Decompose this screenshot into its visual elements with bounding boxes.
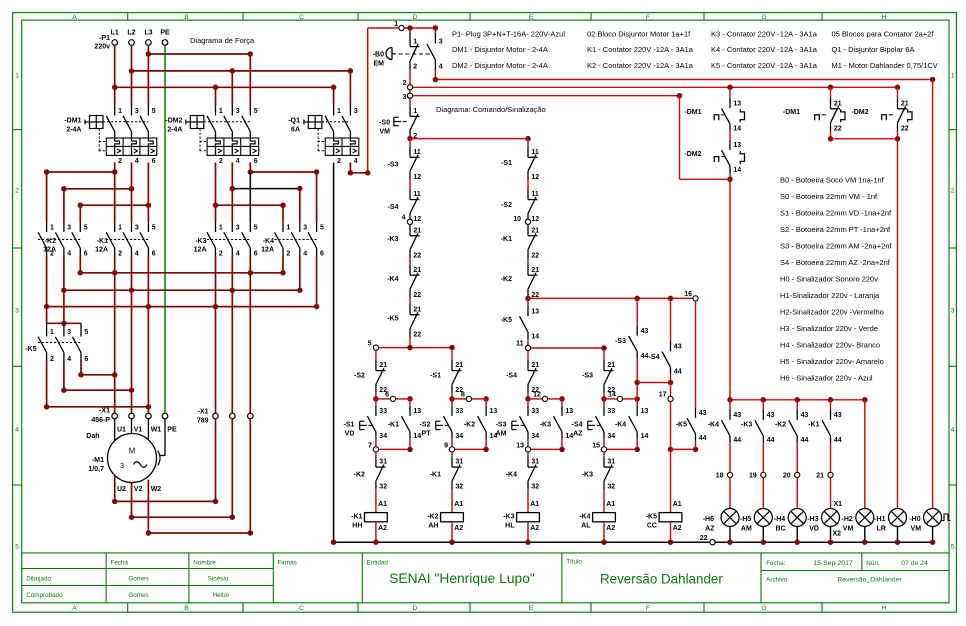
wire to node 14 [603,393,605,399]
contact -K3 NO 43-44 [762,400,764,410]
wire neutral rail [334,541,710,543]
wire DM2-14 to net3 [729,173,731,179]
svg-text:PE: PE [160,30,170,37]
svg-text:B0 - Botoeira Soco VM 1na-1nf: B0 - Botoeira Soco VM 1na-1nf [780,176,885,185]
node 2 [407,85,412,90]
contact S3 NO 43-44 [636,298,638,325]
wire W2 return [147,480,149,533]
node 11 [527,339,529,345]
svg-text:Nombre: Nombre [193,559,216,566]
svg-text:33: 33 [607,408,615,415]
svg-text:4: 4 [439,63,443,70]
svg-text:2-4A: 2-4A [66,127,81,134]
svg-text:Entidad: Entidad [367,559,389,566]
svg-text:EM: EM [374,61,385,68]
svg-text:W2: W2 [151,486,162,493]
svg-text:A2: A2 [673,525,682,532]
lamp H0 VM [924,509,942,527]
svg-text:33: 33 [379,408,387,415]
svg-text:-X1: -X1 [198,409,209,416]
svg-text:14: 14 [641,433,649,440]
svg-text:6: 6 [385,392,389,399]
svg-text:1: 1 [15,72,19,79]
svg-text:AM: AM [741,525,752,532]
svg-text:4: 4 [236,250,240,257]
svg-text:-DM1: -DM1 [783,109,800,116]
svg-text:12: 12 [413,216,421,223]
svg-text:2: 2 [219,250,223,257]
svg-text:220v: 220v [94,44,110,51]
wire L2 tap to DM2 pole3 and Q1 pole3 [132,70,351,72]
svg-text:Fecha:: Fecha: [766,560,786,567]
wire branch feed -K4 [603,351,605,360]
svg-text:12A: 12A [194,247,207,254]
svg-text:21: 21 [834,100,842,107]
svg-text:2: 2 [337,158,341,165]
svg-text:A1: A1 [673,501,682,508]
wire [527,224,529,226]
wire control feed riser [367,28,369,173]
node 10 [525,219,530,224]
wire ladder1 to node5 row [409,337,411,348]
svg-text:11: 11 [531,191,539,198]
svg-text:32: 32 [531,484,539,491]
svg-text:-H3: -H3 [807,516,818,523]
svg-text:-S1: -S1 [501,160,512,167]
svg-text:VD: VD [809,525,819,532]
wire K5-44 to coil junction [695,441,697,450]
motor lead W1 [147,419,149,440]
node 8 [449,396,455,402]
svg-text:DM1 - Disjuntor Motor - 2-4A: DM1 - Disjuntor Motor - 2-4A [452,45,548,54]
svg-text:V2: V2 [134,486,143,493]
svg-text:12: 12 [531,216,539,223]
svg-text:17: 17 [659,392,667,399]
svg-text:DM2 - Disjuntor Motor - 2-4A: DM2 - Disjuntor Motor - 2-4A [452,61,548,70]
svg-text:6: 6 [254,158,258,165]
svg-text:3: 3 [303,224,307,231]
lamp H3 VD [822,509,840,527]
wire DM2 out 6 crossover [249,163,251,173]
svg-text:-S1: -S1 [343,422,354,429]
wire phase bus V [63,256,65,291]
coil -K3 [527,489,529,512]
svg-text:6: 6 [152,158,156,165]
svg-text:-K2: -K2 [464,422,475,429]
svg-text:21: 21 [413,227,421,234]
svg-text:3: 3 [403,94,407,101]
svg-text:5: 5 [84,329,88,336]
svg-text:1: 1 [118,108,122,115]
svg-text:13: 13 [641,408,649,415]
wire node1 to B0 [409,28,411,34]
wire [527,180,529,189]
wire Q1 out 2 neutral black [333,163,335,543]
svg-text:2: 2 [951,188,955,195]
svg-text:Dah: Dah [86,433,99,440]
svg-text:5: 5 [320,224,324,231]
wire [409,298,411,305]
svg-text:-K3: -K3 [540,422,551,429]
wire branch feed -K3 [527,351,529,360]
svg-text:L2: L2 [127,30,135,37]
svg-text:13: 13 [733,142,741,149]
wire node17 down [670,402,672,450]
wire net3 east [413,95,680,97]
svg-text:18: 18 [716,472,724,479]
wire to node 6 [375,393,377,399]
wire [409,180,411,189]
wire K5 out 6 to U line [80,360,82,375]
svg-text:31: 31 [531,459,539,466]
svg-text:F: F [646,14,650,21]
svg-text:B: B [184,605,189,612]
svg-text:44: 44 [733,437,741,444]
title block grid [22,553,949,603]
svg-text:14: 14 [733,125,741,132]
svg-text:1: 1 [394,21,398,28]
node 18 [729,443,731,472]
wire L1 drop to DM1 [114,45,116,105]
svg-text:E: E [529,605,534,612]
node 15 [603,439,605,450]
svg-text:-K5: -K5 [501,317,512,324]
svg-text:-H2: -H2 [842,516,853,523]
svg-text:K1 - Contator 220V -12A - 3A1a: K1 - Contator 220V -12A - 3A1a [587,45,694,54]
wire S0 to rail 138.6 [409,138,411,140]
svg-text:43: 43 [733,412,741,419]
wire node3 to S0 [409,99,411,106]
svg-text:-DM2: -DM2 [851,109,868,116]
svg-text:X2: X2 [832,531,841,538]
svg-text:12A: 12A [261,247,274,254]
svg-text:-P1: -P1 [99,35,110,42]
svg-text:-S0: -S0 [379,120,390,127]
node 5 [373,345,378,350]
lamp H4 BC [788,509,806,527]
wire K2 feeders [46,172,48,222]
wire lamp rail 399.8 [730,399,865,401]
svg-text:-H0: -H0 [909,516,920,523]
svg-text:Firmas: Firmas [278,559,297,566]
svg-text:VM: VM [911,525,922,532]
contact DM2 NC 21-22 [897,87,899,98]
coil -K4 [603,489,605,512]
svg-text:-K1: -K1 [808,422,819,429]
svg-text:21: 21 [816,472,824,479]
svg-text:-DM2: -DM2 [684,151,701,158]
svg-text:22: 22 [413,331,421,338]
svg-text:11: 11 [516,341,524,348]
svg-text:A1: A1 [454,501,463,508]
svg-text:-S2: -S2 [501,202,512,209]
svg-text:H6 - Sinalizador 220v - Azul: H6 - Sinalizador 220v - Azul [780,374,873,383]
svg-text:43: 43 [767,412,775,419]
svg-text:-B0: -B0 [373,52,384,59]
svg-text:1: 1 [118,224,122,231]
svg-text:Título: Título [566,558,582,565]
node 21 [830,443,832,472]
svg-text:-K5: -K5 [25,346,36,353]
coil -K2 [451,489,453,512]
svg-text:21: 21 [531,267,539,274]
svg-text:Gomes: Gomes [128,592,148,599]
wire K3 feeders [215,205,217,222]
svg-text:1: 1 [286,224,290,231]
svg-text:Comprobado: Comprobado [26,592,63,599]
svg-text:3: 3 [120,461,124,470]
svg-text:31: 31 [607,459,615,466]
svg-text:-S3: -S3 [615,338,626,345]
svg-text:1: 1 [219,224,223,231]
svg-text:Fecha: Fecha [111,559,129,566]
svg-text:31: 31 [379,459,387,466]
svg-text:3: 3 [236,108,240,115]
wire DM1 out 2 crossover [114,163,116,173]
svg-text:1: 1 [413,108,417,115]
contact K5 NO 43-44 [695,301,697,408]
svg-text:Nún:: Nún: [866,560,880,567]
svg-text:A2: A2 [454,525,463,532]
svg-text:-Q1: -Q1 [288,118,300,125]
svg-text:12: 12 [413,174,421,181]
wire H2 direct feed [864,400,866,509]
svg-text:44: 44 [801,437,809,444]
svg-text:-K5: -K5 [676,422,687,429]
svg-text:-S4: -S4 [649,354,660,361]
svg-text:B: B [184,14,189,21]
node 3 [409,90,411,93]
wire PE green vertical [164,45,166,413]
svg-text:AH: AH [428,522,438,529]
svg-text:S0 - Botoeira 22mm VM - 1nf: S0 - Botoeira 22mm VM - 1nf [780,192,878,201]
svg-text:-H5: -H5 [740,516,751,523]
svg-text:2: 2 [118,158,122,165]
svg-text:K3 - Contator 220V -12A - 3A1a: K3 - Contator 220V -12A - 3A1a [711,29,818,38]
svg-text:4: 4 [303,250,307,257]
wire rail 298.4 [528,297,693,299]
svg-text:1: 1 [413,39,417,46]
svg-text:34: 34 [455,433,463,440]
svg-text:CC: CC [647,522,657,529]
svg-text:AZ: AZ [573,431,583,438]
svg-text:-K3: -K3 [387,236,398,243]
svg-text:VM: VM [380,129,391,136]
svg-text:V1: V1 [134,426,143,433]
svg-text:VM: VM [843,525,854,532]
wire DM2 out 2 crossover [215,163,217,206]
wire net2 to DM1 aux [413,86,898,88]
svg-text:P1- Plug 3P+N+T-16A- 220V-Azul: P1- Plug 3P+N+T-16A- 220V-Azul [452,29,565,38]
wire to lamp H0 [932,80,934,509]
svg-text:-S3: -S3 [496,422,507,429]
wire DM2 feeders [215,87,217,105]
wire L3 tap to DM2 pole5 [148,53,250,55]
svg-text:44: 44 [699,435,707,442]
svg-text:4: 4 [67,250,71,257]
svg-text:LR: LR [877,525,886,532]
wire to lamp H1 [897,139,899,509]
svg-text:5: 5 [368,340,372,347]
svg-text:4: 4 [135,250,139,257]
svg-text:-S3: -S3 [388,162,399,169]
svg-text:44: 44 [674,369,682,376]
svg-text:-X1: -X1 [99,408,110,415]
svg-text:-S2: -S2 [420,422,431,429]
contact DM1 NC 21-22 [830,87,832,98]
svg-text:22: 22 [413,252,421,259]
svg-text:22: 22 [834,125,842,132]
svg-text:S4 - Botoeira 22mm AZ -2na+2nf: S4 - Botoeira 22mm AZ -2na+2nf [780,258,891,267]
svg-text:-DM1: -DM1 [64,118,81,125]
svg-text:44: 44 [641,353,649,360]
svg-text:H4 - Sinalizador 220v- Branco: H4 - Sinalizador 220v- Branco [780,341,880,350]
wire row 348 [531,347,604,349]
svg-text:43: 43 [699,410,707,417]
lamp H6 AZ [721,509,739,527]
wire L2 drop to DM1 [131,45,133,105]
svg-text:Q1 - Disjuntor Bipolar 6A: Q1 - Disjuntor Bipolar 6A [832,45,915,54]
svg-text:-K5: -K5 [387,316,398,323]
svg-text:13: 13 [516,443,524,450]
svg-text:H5 - Sinalizador 220v- Amarelo: H5 - Sinalizador 220v- Amarelo [780,357,884,366]
node 16 [693,296,698,301]
svg-text:-K2: -K2 [501,276,512,283]
svg-text:21: 21 [455,362,463,369]
wire X1-789 feeds [215,307,217,414]
svg-text:F: F [646,605,650,612]
svg-text:PE: PE [167,426,177,433]
svg-text:-K2: -K2 [427,514,438,521]
svg-text:4: 4 [67,356,71,363]
svg-text:G: G [761,605,766,612]
node 7 [375,439,377,450]
node 17 [670,383,672,397]
svg-text:15: 15 [592,443,600,450]
svg-text:4: 4 [15,427,19,434]
wire phase bus W [79,256,81,273]
buzzer waveform symbol [942,514,951,521]
svg-text:M: M [129,447,136,456]
svg-text:3: 3 [135,108,139,115]
svg-text:U2: U2 [117,486,126,493]
svg-text:789: 789 [197,418,209,425]
wire [409,224,411,226]
svg-text:3: 3 [439,39,443,46]
wire U2 return [114,475,116,501]
svg-text:-K1: -K1 [388,422,399,429]
svg-text:6: 6 [254,250,258,257]
svg-text:14: 14 [531,333,539,340]
wire DM1 out 6 crossover [147,163,149,206]
svg-text:-S3: -S3 [582,373,593,380]
svg-text:-K5: -K5 [646,514,657,521]
svg-text:3: 3 [15,307,19,314]
svg-text:M1 - Motor Dahlander 0,75/1CV: M1 - Motor Dahlander 0,75/1CV [832,61,938,70]
svg-text:6: 6 [320,250,324,257]
svg-text:12: 12 [533,392,541,399]
svg-text:K5 - Contator 220V -12A - 3A1a: K5 - Contator 220V -12A - 3A1a [711,61,818,70]
svg-text:-H1: -H1 [874,516,885,523]
svg-text:4: 4 [402,214,406,221]
svg-text:22: 22 [531,252,539,259]
wire [527,258,529,265]
svg-text:43: 43 [834,412,842,419]
svg-text:1: 1 [219,108,223,115]
svg-text:S1 - Botoeira 22mm VD -1na+2nf: S1 - Botoeira 22mm VD -1na+2nf [780,209,892,218]
svg-text:Archivo:: Archivo: [766,576,789,583]
svg-text:3: 3 [135,224,139,231]
svg-text:15-Sep-2017: 15-Sep-2017 [813,560,853,567]
contact -K1 NO 43-44 [830,400,832,410]
node 19 [762,443,764,472]
svg-text:Gomes: Gomes [128,575,148,582]
svg-text:A: A [72,605,77,612]
svg-text:-S4: -S4 [506,373,517,380]
svg-text:12: 12 [531,174,539,181]
wire DM aux NC tie [830,131,832,139]
svg-text:-DM2: -DM2 [165,118,182,125]
svg-text:2: 2 [50,250,54,257]
svg-text:12A: 12A [95,247,108,254]
node 1 [368,27,399,29]
svg-text:43: 43 [641,328,649,335]
svg-text:1: 1 [337,108,341,115]
svg-text:13: 13 [490,408,498,415]
svg-text:22: 22 [700,535,708,542]
svg-text:-M1: -M1 [92,457,104,464]
svg-text:Heitor: Heitor [213,592,230,599]
svg-text:-K4: -K4 [506,472,517,479]
svg-text:2: 2 [286,250,290,257]
wire K3 pole5 feeder black [249,172,251,222]
svg-text:-DM1: -DM1 [684,109,701,116]
svg-text:22: 22 [901,125,909,132]
wire K1 feeders [114,172,116,222]
svg-text:19: 19 [749,472,757,479]
svg-text:S3 - Botoeira 22mm AM -2na+2nf: S3 - Botoeira 22mm AM -2na+2nf [780,242,892,251]
contact S4 NO 43-44 [670,298,672,341]
svg-text:3: 3 [951,307,955,314]
svg-text:-K4: -K4 [387,276,398,283]
svg-text:5: 5 [152,108,156,115]
svg-text:43: 43 [801,412,809,419]
svg-text:AL: AL [581,522,591,529]
svg-text:11: 11 [413,191,421,198]
svg-text:2-4A: 2-4A [167,127,182,134]
wire V2 return [131,483,133,518]
wire L3 drop to DM1 [147,45,149,105]
svg-text:33: 33 [455,408,463,415]
svg-text:-K4: -K4 [579,514,590,521]
svg-text:13: 13 [531,308,539,315]
wire [729,131,731,140]
svg-text:7: 7 [368,443,372,450]
node 14 [601,396,607,402]
svg-text:16: 16 [684,291,692,298]
node 6 [373,396,379,402]
wire top rail 79.5 [435,79,932,81]
svg-text:-K1: -K1 [430,472,441,479]
wire Q1 feeders [333,87,335,105]
node 22 [710,540,715,545]
svg-text:E: E [529,14,534,21]
svg-text:1: 1 [50,329,54,336]
wire B0 NC to node 2 [409,71,411,85]
svg-text:34: 34 [531,433,539,440]
wire DM1 aux to lamp rail [729,179,731,399]
svg-text:-H6: -H6 [703,516,714,523]
